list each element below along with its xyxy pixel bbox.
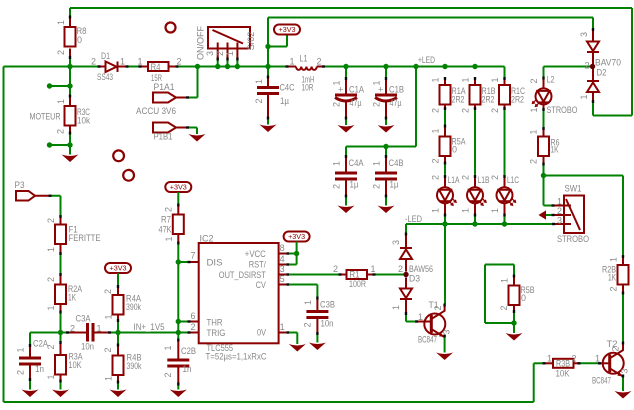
svg-text:2: 2 bbox=[163, 372, 173, 377]
wire R8 pin2 to main net bbox=[69, 59, 71, 67]
ground C4B bbox=[378, 206, 395, 214]
svg-text:10k: 10k bbox=[77, 116, 90, 126]
resistor R4B 390k bbox=[103, 333, 142, 384]
wire C3B to ground bbox=[316, 335, 318, 343]
net label +LED bbox=[418, 55, 435, 65]
svg-text:6: 6 bbox=[190, 311, 195, 321]
wire R5A to L1A bbox=[444, 165, 446, 176]
capacitor C4B 1u bbox=[372, 147, 404, 206]
wire P3 to F1 bbox=[52, 196, 61, 215]
hole H3 bbox=[123, 170, 134, 181]
resistor R3A 10K bbox=[46, 333, 83, 383]
wire R2B riser bbox=[622, 176, 624, 256]
wire F1 to R2A bbox=[60, 255, 62, 273]
svg-text:L2: L2 bbox=[547, 75, 555, 85]
svg-text:1: 1 bbox=[431, 208, 441, 213]
node junction R5B ground bbox=[511, 320, 516, 325]
wire R1A to R5A bbox=[444, 110, 446, 125]
svg-text:3: 3 bbox=[205, 51, 215, 56]
wire R1 to D3 bbox=[376, 274, 404, 276]
supply +3V3 (R4A) bbox=[105, 263, 131, 273]
svg-text:D3: D3 bbox=[409, 274, 420, 284]
svg-text:2: 2 bbox=[103, 347, 113, 352]
resistor R3C 10K bbox=[56, 95, 91, 135]
svg-text:1n: 1n bbox=[183, 364, 192, 374]
svg-text:C2B: C2B bbox=[181, 346, 196, 356]
svg-text:CV: CV bbox=[256, 280, 266, 290]
label MOTEUR bbox=[30, 112, 61, 122]
svg-text:5: 5 bbox=[280, 274, 285, 284]
svg-text:R7: R7 bbox=[161, 215, 171, 225]
svg-text:1: 1 bbox=[332, 80, 342, 85]
label ACCU 3V6 bbox=[136, 106, 176, 116]
svg-text:2: 2 bbox=[499, 305, 509, 310]
svg-text:1: 1 bbox=[609, 257, 619, 262]
svg-text:10n: 10n bbox=[81, 342, 94, 352]
resistor R1B 2R2 bbox=[461, 77, 496, 113]
wire bottom border net bbox=[4, 363, 543, 402]
ground C2B bbox=[170, 390, 187, 398]
svg-text:1: 1 bbox=[490, 208, 500, 213]
resistor R8 bbox=[56, 16, 87, 60]
diode D2 BAV70 bbox=[579, 28, 621, 103]
svg-text:1: 1 bbox=[225, 51, 235, 56]
pin P1B1 bbox=[153, 123, 189, 142]
ground C3B bbox=[309, 343, 326, 351]
svg-text:1: 1 bbox=[595, 354, 600, 364]
svg-text:1: 1 bbox=[56, 99, 66, 104]
ground MOTEUR bbox=[62, 155, 79, 163]
svg-text:1: 1 bbox=[46, 305, 56, 310]
svg-text:0: 0 bbox=[521, 293, 526, 303]
supply +3V3 (top) bbox=[274, 25, 300, 35]
wire junction to SW1 pin1 bbox=[544, 176, 552, 206]
wire ON/OFF pins to net bbox=[218, 61, 238, 67]
wire VCC/RST to +3V3 bbox=[289, 242, 296, 265]
node junction R4A/R4B bbox=[115, 330, 120, 335]
svg-text:1K: 1K bbox=[68, 293, 76, 303]
svg-text:2: 2 bbox=[461, 108, 471, 113]
svg-text:DIS: DIS bbox=[207, 258, 223, 268]
LED L1A bbox=[431, 175, 460, 217]
wire L1 to +LED run bbox=[325, 67, 505, 78]
svg-text:L1C: L1C bbox=[507, 175, 519, 185]
svg-text:1: 1 bbox=[461, 77, 471, 82]
svg-text:3: 3 bbox=[557, 216, 562, 226]
diode D1 SS43 bbox=[91, 51, 129, 82]
svg-text:FERITTE: FERITTE bbox=[69, 233, 101, 243]
wire P1B1 to ground bbox=[189, 128, 197, 135]
svg-text:L1: L1 bbox=[300, 54, 308, 64]
node junction R1B bbox=[472, 64, 477, 69]
svg-text:+3V3: +3V3 bbox=[279, 27, 296, 34]
inductor L1 1mH 10R bbox=[286, 54, 326, 93]
ground P1B1 bbox=[189, 134, 206, 142]
svg-text:1µ: 1µ bbox=[350, 180, 359, 190]
svg-text:T1: T1 bbox=[429, 300, 439, 310]
wire main battery net segment left bbox=[4, 66, 99, 68]
svg-text:2: 2 bbox=[572, 354, 577, 364]
wire R6 pin2 to junction bbox=[543, 166, 545, 176]
svg-text:1n: 1n bbox=[35, 364, 44, 374]
svg-text:1µ: 1µ bbox=[390, 180, 399, 190]
svg-text:SS43: SS43 bbox=[97, 72, 113, 82]
svg-text:P3: P3 bbox=[15, 180, 25, 190]
svg-text:1: 1 bbox=[529, 107, 539, 112]
LED L1C bbox=[490, 175, 519, 217]
node junction R6/SW1/R2B bbox=[541, 173, 546, 178]
svg-text:2: 2 bbox=[333, 264, 338, 274]
capacitor C3A 10n bbox=[66, 314, 111, 352]
net label IN+_1V5 bbox=[134, 322, 165, 332]
resistor R5B 0 bbox=[499, 265, 535, 314]
svg-text:1: 1 bbox=[547, 354, 552, 364]
svg-text:2: 2 bbox=[332, 102, 342, 107]
wire junction to R2B riser bbox=[544, 175, 624, 177]
svg-text:1: 1 bbox=[372, 161, 382, 166]
svg-text:3: 3 bbox=[280, 264, 285, 274]
node junction D2 pin2 bbox=[590, 64, 595, 69]
svg-text:+3V3: +3V3 bbox=[110, 266, 127, 273]
svg-text:1: 1 bbox=[164, 236, 174, 241]
svg-text:R1: R1 bbox=[350, 270, 360, 280]
resistor R4 15R bbox=[137, 57, 181, 84]
svg-text:7: 7 bbox=[190, 251, 195, 261]
svg-text:3: 3 bbox=[579, 32, 589, 37]
svg-text:2: 2 bbox=[16, 370, 26, 375]
svg-text:2: 2 bbox=[431, 158, 441, 163]
wire top outer net (R8 pin1 to D2 pin1 via right edge) bbox=[70, 8, 632, 116]
ground T1 bbox=[436, 353, 453, 361]
svg-text:2: 2 bbox=[398, 264, 403, 274]
wire R5B junction to ground bbox=[513, 323, 515, 333]
svg-text:1: 1 bbox=[280, 322, 285, 332]
wire +LED to C4A/C4B bbox=[346, 67, 416, 147]
svg-text:1: 1 bbox=[137, 57, 142, 67]
svg-text:2: 2 bbox=[557, 206, 562, 216]
wire R4A to IN net bbox=[117, 322, 119, 333]
svg-text:1: 1 bbox=[372, 80, 382, 85]
node junction ON/OFF pin3 bbox=[215, 64, 220, 69]
svg-text:2: 2 bbox=[609, 286, 619, 291]
wire +3V3 to R7 bbox=[177, 192, 179, 204]
node junction L1A bottom bbox=[442, 221, 447, 226]
svg-text:1: 1 bbox=[16, 347, 26, 352]
wire IN+_1V5 net bbox=[30, 332, 188, 334]
svg-text:2: 2 bbox=[584, 61, 589, 71]
svg-text:2: 2 bbox=[372, 102, 382, 107]
wire R5B pin2 to junction bbox=[513, 313, 515, 323]
svg-text:+3V3: +3V3 bbox=[288, 234, 305, 241]
svg-text:1: 1 bbox=[120, 57, 125, 67]
svg-text:1: 1 bbox=[431, 128, 441, 133]
hole H2 bbox=[113, 150, 124, 161]
svg-text:47µ: 47µ bbox=[390, 98, 402, 108]
node junction L1B bottom bbox=[472, 221, 477, 226]
wire between D1 and R4 bbox=[129, 66, 140, 68]
label T=52us formula bbox=[206, 352, 267, 362]
wire C4C to main bbox=[267, 67, 269, 76]
pin IC2 OUT 3 bbox=[279, 264, 290, 276]
svg-text:T2: T2 bbox=[607, 339, 618, 349]
pin IC2 THR 6 bbox=[188, 311, 199, 323]
wire C2B to ground bbox=[177, 386, 179, 390]
svg-text:+VCC: +VCC bbox=[245, 249, 266, 259]
node junction C1B bbox=[383, 64, 388, 69]
wire R7 to DIS junction bbox=[178, 245, 187, 263]
svg-text:1: 1 bbox=[46, 247, 56, 252]
wire R4 to L1 bbox=[179, 66, 286, 68]
svg-text:ON/OFF: ON/OFF bbox=[196, 26, 206, 60]
svg-text:2: 2 bbox=[164, 207, 174, 212]
pin P1A1 bbox=[153, 82, 189, 103]
resistor R2B 1K bbox=[602, 255, 629, 295]
svg-text:0: 0 bbox=[452, 145, 457, 155]
node junction C4 riser bbox=[413, 64, 418, 69]
svg-text:1K: 1K bbox=[608, 273, 616, 283]
wire +3V3 to R4A bbox=[117, 273, 119, 285]
svg-text:THR: THR bbox=[207, 318, 223, 328]
svg-text:2: 2 bbox=[431, 108, 441, 113]
svg-text:1: 1 bbox=[332, 161, 342, 166]
svg-text:2: 2 bbox=[56, 129, 66, 134]
svg-text:S/02: S/02 bbox=[246, 32, 256, 51]
switch SW1 STROBO bbox=[552, 184, 590, 245]
resistor R1C 2R2 bbox=[490, 77, 525, 113]
LED L1B bbox=[461, 175, 490, 217]
resistor R3B 10K bbox=[543, 354, 581, 379]
capacitor C1B 47u bbox=[372, 68, 405, 126]
svg-text:RST/: RST/ bbox=[249, 260, 266, 270]
wire DIS junction down to THR/TRIG bbox=[177, 262, 179, 339]
svg-text:3: 3 bbox=[442, 329, 452, 334]
node junction D3 pin2 bbox=[403, 272, 408, 277]
svg-text:10K: 10K bbox=[69, 360, 82, 370]
svg-text:1: 1 bbox=[391, 305, 401, 310]
node junction THR bbox=[176, 319, 181, 324]
wire L1B pin1 to -LED bbox=[474, 217, 476, 225]
svg-text:2: 2 bbox=[46, 277, 56, 282]
svg-text:1: 1 bbox=[557, 197, 562, 207]
ground T2 bbox=[615, 391, 632, 399]
svg-text:1: 1 bbox=[289, 57, 294, 67]
wire D3 to T1 base bbox=[406, 315, 415, 322]
svg-text:47µ: 47µ bbox=[350, 98, 362, 108]
pin IC2 TRIG 2 bbox=[188, 322, 199, 334]
svg-text:2: 2 bbox=[103, 289, 113, 294]
wire R1C to L1C bbox=[504, 110, 506, 175]
capacitor C3B 10n bbox=[303, 297, 336, 336]
svg-text:D1: D1 bbox=[101, 51, 110, 61]
wire stub MOTEUR upper bbox=[47, 83, 73, 88]
wire R2B to T2 collector bbox=[622, 295, 624, 342]
node junction C4B top bbox=[383, 144, 388, 149]
node junction R7/DIS bbox=[176, 259, 181, 264]
wire C2A to ground bbox=[29, 381, 31, 390]
svg-text:P1A1: P1A1 bbox=[154, 82, 175, 92]
svg-text:D2: D2 bbox=[597, 68, 607, 78]
resistor R2A 1K bbox=[46, 273, 82, 314]
wire P1A1 to main net bbox=[189, 67, 198, 98]
svg-text:L1A: L1A bbox=[448, 175, 460, 185]
svg-text:C3A: C3A bbox=[76, 314, 91, 324]
svg-text:2: 2 bbox=[91, 57, 96, 67]
resistor R7 47K bbox=[159, 204, 184, 245]
pin IC2 VCC 8 bbox=[279, 243, 290, 255]
node junction TRIG bbox=[176, 330, 181, 335]
svg-text:1: 1 bbox=[97, 324, 102, 334]
svg-text:2: 2 bbox=[46, 218, 56, 223]
svg-text:2: 2 bbox=[177, 57, 182, 67]
transistor T1 BC847 bbox=[415, 300, 452, 345]
svg-text:BC847: BC847 bbox=[418, 335, 437, 345]
svg-text:MOTEUR: MOTEUR bbox=[30, 112, 61, 122]
wire +3V3 supply stub near ON/OFF bbox=[268, 35, 287, 47]
ground R4B bbox=[110, 390, 127, 398]
wire THR branch bbox=[178, 321, 187, 323]
svg-text:0: 0 bbox=[77, 35, 82, 45]
svg-text:1: 1 bbox=[529, 129, 539, 134]
wire R3C pin2 down bbox=[69, 135, 71, 155]
svg-text:1K: 1K bbox=[551, 145, 559, 155]
svg-text:1: 1 bbox=[104, 376, 114, 381]
resistor R1 100R bbox=[333, 264, 376, 289]
resistor R6 1K bbox=[529, 127, 560, 166]
pin IC2 RST 4 bbox=[279, 254, 290, 266]
node junction IC2 VCC bbox=[294, 251, 299, 256]
ground R5B bbox=[506, 333, 523, 341]
supply +3V3 (R7) bbox=[165, 182, 191, 192]
svg-text:2: 2 bbox=[461, 175, 471, 180]
wire L1C pin1 to -LED bbox=[504, 217, 506, 225]
svg-text:100R: 100R bbox=[349, 279, 366, 289]
wire CV to C3B bbox=[289, 285, 317, 297]
svg-text:2: 2 bbox=[529, 78, 539, 83]
svg-text:1: 1 bbox=[46, 374, 56, 379]
wire IN net to C2A bbox=[29, 333, 31, 345]
svg-text:1: 1 bbox=[56, 20, 66, 25]
svg-text:10n: 10n bbox=[321, 319, 334, 329]
wire D2 pin1 down bbox=[592, 103, 594, 116]
ground R3A bbox=[52, 390, 69, 398]
wire IC2 OUT to R1 bbox=[290, 274, 339, 276]
svg-text:4: 4 bbox=[280, 254, 285, 264]
pin P3 bbox=[15, 180, 52, 201]
label TLC555 bbox=[207, 343, 234, 353]
svg-text:1: 1 bbox=[579, 94, 589, 99]
svg-text:+3V3: +3V3 bbox=[170, 185, 187, 192]
svg-text:BAV70: BAV70 bbox=[595, 58, 621, 68]
net label -LED bbox=[405, 214, 422, 224]
node junction C1A bbox=[343, 64, 348, 69]
wire T2 emitter to ground bbox=[622, 378, 624, 392]
capacitor C4A 1u bbox=[332, 147, 364, 206]
svg-text:2R2: 2R2 bbox=[511, 95, 524, 105]
svg-text:2: 2 bbox=[70, 324, 75, 334]
wire R3A to ground bbox=[60, 383, 62, 390]
svg-text:2: 2 bbox=[431, 175, 441, 180]
svg-text:+LED: +LED bbox=[418, 55, 435, 65]
svg-text:TRIG: TRIG bbox=[207, 328, 226, 338]
capacitor C1A 47u bbox=[332, 68, 365, 126]
svg-text:1: 1 bbox=[461, 208, 471, 213]
svg-text:2: 2 bbox=[46, 344, 56, 349]
svg-text:2: 2 bbox=[190, 322, 195, 332]
wire inner top net (+3V3 riser to D2 pin3) bbox=[268, 18, 593, 67]
svg-text:1: 1 bbox=[500, 278, 510, 283]
svg-text:SW1: SW1 bbox=[565, 184, 582, 194]
svg-text:C3B: C3B bbox=[320, 300, 335, 310]
svg-text:R3B: R3B bbox=[556, 359, 570, 369]
svg-text:10R: 10R bbox=[302, 83, 314, 93]
svg-text:C4C: C4C bbox=[280, 83, 295, 93]
node junction L1C bottom bbox=[502, 221, 507, 226]
node junction C4C column bbox=[265, 64, 270, 69]
svg-text:1µ: 1µ bbox=[280, 96, 289, 106]
transistor T2 BC847 bbox=[592, 339, 630, 386]
wire L1A column to T1 collector bbox=[444, 224, 446, 304]
svg-text:ACCU 3V6: ACCU 3V6 bbox=[136, 106, 176, 116]
wire R4B to ground bbox=[117, 384, 119, 390]
node junction +3V3 stub bbox=[265, 44, 270, 49]
resistor R4A 390k bbox=[103, 285, 141, 322]
resistor R1A 2R2 bbox=[431, 77, 466, 113]
svg-text:R4: R4 bbox=[151, 62, 161, 72]
switch S1 ON/OFF S/02 bbox=[196, 26, 257, 61]
svg-text:C1B: C1B bbox=[389, 85, 404, 95]
svg-text:2R2: 2R2 bbox=[482, 95, 495, 105]
wire L2/D2 net bbox=[544, 67, 593, 77]
svg-text:390k: 390k bbox=[126, 302, 141, 312]
wire R5B loop bbox=[485, 265, 514, 324]
capacitor C2A 1n bbox=[16, 339, 49, 382]
hole H1 bbox=[166, 23, 176, 33]
pin SW1 pin2 arrow stub bbox=[539, 210, 552, 219]
ground C1B bbox=[378, 125, 395, 133]
node junction R2A/R3A bbox=[58, 330, 63, 335]
node junction R8/D1 bbox=[67, 64, 72, 69]
svg-text:C1A: C1A bbox=[349, 85, 364, 95]
capacitor C2B 1n bbox=[163, 339, 196, 386]
svg-text:2: 2 bbox=[490, 108, 500, 113]
svg-text:0V: 0V bbox=[257, 328, 266, 338]
wire L2 to R6 bbox=[543, 111, 545, 127]
svg-text:IN+_1V5: IN+_1V5 bbox=[134, 322, 165, 332]
svg-text:T=52µs=1,1xRxC: T=52µs=1,1xRxC bbox=[206, 352, 267, 362]
LED L2 STROBO bbox=[529, 75, 578, 116]
wire R1B to L1B bbox=[474, 110, 476, 175]
svg-text:C4A: C4A bbox=[349, 158, 364, 168]
wire T1 emitter to ground bbox=[444, 338, 446, 353]
node junction P1A1 riser bbox=[195, 64, 200, 69]
diode D3 BAW56 bbox=[391, 233, 433, 316]
svg-text:3: 3 bbox=[391, 240, 401, 245]
ground IC2 0V bbox=[289, 344, 306, 352]
svg-text:IC2: IC2 bbox=[200, 234, 214, 244]
svg-text:L1B: L1B bbox=[478, 175, 490, 185]
node junction ON/OFF pin2 bbox=[225, 64, 230, 69]
svg-text:1: 1 bbox=[254, 79, 264, 84]
ground C2A bbox=[22, 390, 39, 398]
svg-text:1: 1 bbox=[371, 264, 376, 274]
svg-text:BAW56: BAW56 bbox=[409, 264, 433, 274]
svg-text:C4B: C4B bbox=[389, 158, 404, 168]
svg-text:2: 2 bbox=[490, 175, 500, 180]
svg-text:1: 1 bbox=[418, 312, 423, 322]
node junction R1A bbox=[442, 64, 447, 69]
wire L1A pin1 to -LED bbox=[444, 217, 446, 225]
svg-text:STROBO: STROBO bbox=[547, 105, 578, 115]
